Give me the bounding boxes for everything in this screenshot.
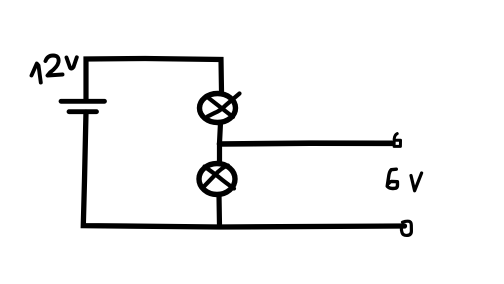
wire junction to lamp L2: [217, 143, 222, 162]
wire L1 to junction node: [220, 123, 221, 143]
battery top plate (long): [61, 99, 105, 104]
terminal T2 (square): [401, 221, 411, 235]
battery bottom plate (short): [69, 109, 97, 114]
wire battery positive to top rail: [86, 59, 222, 101]
wire middle tap to terminal: [220, 140, 392, 146]
battery B1 12V: [61, 101, 105, 111]
wire L2 to bottom rail: [216, 195, 222, 226]
lamp L2: [199, 164, 235, 195]
terminal T1 (hook): [394, 134, 400, 147]
label 12v: [32, 56, 77, 83]
lamp L1: [200, 94, 240, 123]
label 6V: [387, 169, 421, 191]
wire battery negative down left side and bottom rail: [83, 112, 404, 227]
